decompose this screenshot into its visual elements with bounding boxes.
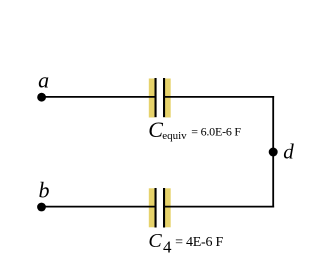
wire: right vertical bus through node d [272, 96, 274, 208]
capacitor C4 right plate [163, 188, 165, 228]
capacitor C4 right dielectric (yellow) [165, 188, 171, 227]
capacitor C_equiv left dielectric (yellow) [149, 79, 155, 118]
capacitor C_equiv right dielectric (yellow) [165, 79, 171, 118]
node a terminal dot [37, 93, 46, 102]
capacitor C4 left plate [155, 188, 157, 228]
svg-text:equiv: equiv [162, 130, 187, 142]
svg-text:d: d [283, 139, 294, 163]
svg-text:b: b [39, 178, 50, 203]
wire: node a to C_equiv left plate [42, 96, 156, 98]
wire: node b to C4 left plate [42, 206, 157, 208]
svg-text:C: C [148, 230, 162, 252]
svg-text:C: C [148, 117, 163, 142]
node b terminal dot [37, 203, 46, 212]
svg-text:= 4E-6 F: = 4E-6 F [175, 235, 223, 250]
capacitor C_equiv right plate [163, 78, 165, 117]
node d junction dot [269, 148, 278, 157]
capacitor C4 left dielectric (yellow) [149, 188, 155, 227]
wire: C4 right plate to bottom-right corner [164, 206, 275, 208]
svg-text:a: a [38, 68, 49, 93]
wire: C_equiv right plate to top-right corner [164, 96, 275, 98]
capacitor C_equiv left plate [155, 78, 157, 117]
svg-text:= 6.0E-6 F: = 6.0E-6 F [191, 125, 241, 139]
svg-text:4: 4 [163, 237, 172, 256]
